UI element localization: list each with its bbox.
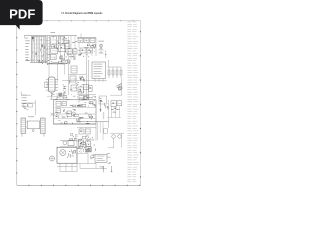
svg-text:7.1 Circuit Diagrams and PWB L: 7.1 Circuit Diagrams and PWB Layouts <box>61 12 103 15</box>
svg-text:PDF: PDF <box>9 7 35 22</box>
